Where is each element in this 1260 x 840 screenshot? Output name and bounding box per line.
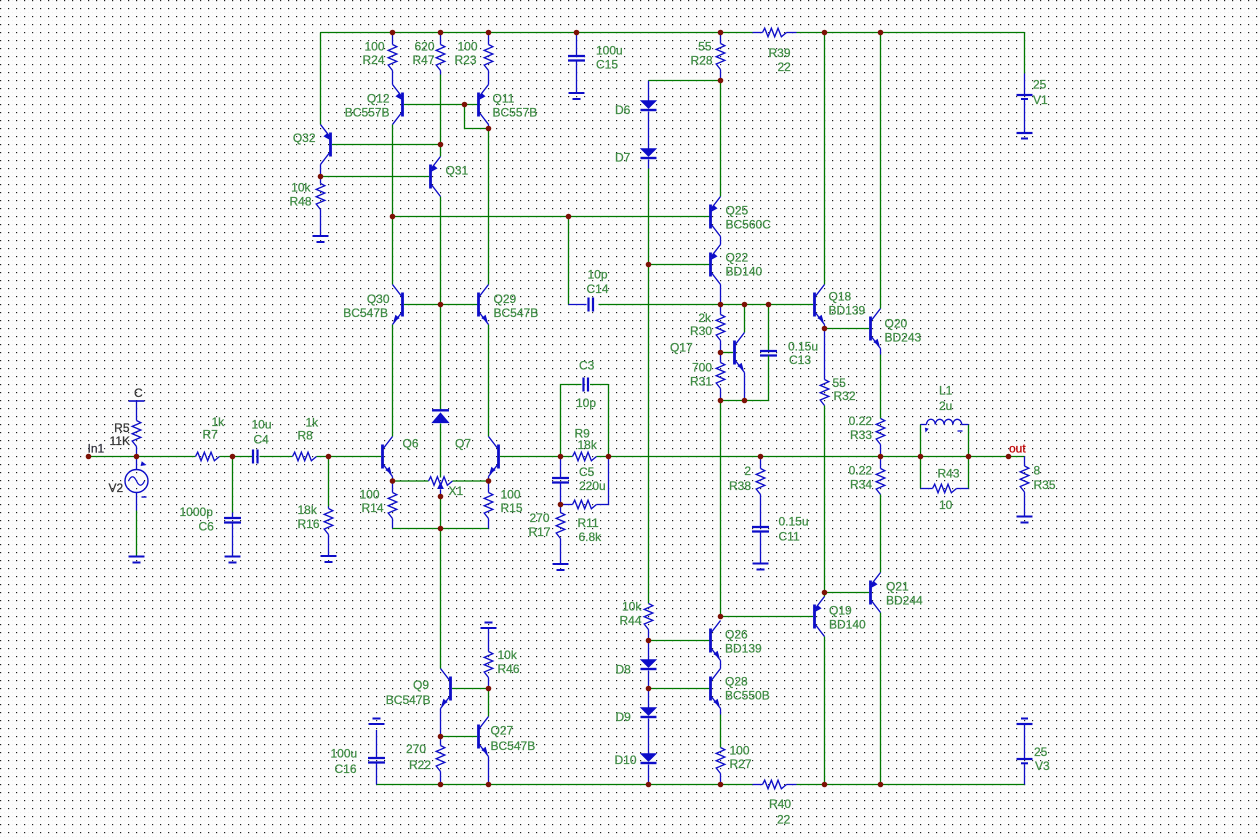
svg-text:10k: 10k	[291, 181, 311, 195]
svg-text:10u: 10u	[252, 418, 272, 432]
svg-text:D10: D10	[615, 753, 637, 767]
svg-text:BC557B: BC557B	[345, 106, 390, 120]
svg-text:2: 2	[744, 464, 751, 478]
svg-text:V1: V1	[1033, 93, 1048, 107]
svg-text:BC547B: BC547B	[491, 739, 536, 753]
svg-text:R17: R17	[528, 525, 550, 539]
svg-text:620: 620	[414, 40, 434, 54]
svg-text:V3: V3	[1035, 759, 1050, 773]
svg-text:BC550B: BC550B	[725, 689, 770, 703]
svg-text:BC560C: BC560C	[726, 218, 772, 232]
svg-text:Q20: Q20	[885, 317, 908, 331]
svg-text:R22: R22	[409, 758, 431, 772]
svg-text:D7: D7	[615, 151, 631, 165]
svg-text:C4: C4	[254, 433, 270, 447]
svg-text:18k: 18k	[298, 503, 318, 517]
svg-text:22: 22	[777, 813, 791, 827]
svg-text:Q32: Q32	[293, 131, 316, 145]
svg-text:R28: R28	[690, 54, 712, 68]
svg-text:Q12: Q12	[367, 92, 390, 106]
svg-text:2k: 2k	[698, 311, 712, 325]
svg-text:BC557B: BC557B	[493, 106, 538, 120]
svg-text:10: 10	[939, 498, 953, 512]
svg-text:100: 100	[457, 40, 477, 54]
svg-text:BD243: BD243	[885, 331, 922, 345]
svg-text:C5: C5	[579, 465, 595, 479]
svg-text:100: 100	[501, 488, 521, 502]
svg-text:Q6: Q6	[403, 437, 419, 451]
svg-text:R47: R47	[412, 53, 434, 67]
svg-text:BD140: BD140	[829, 618, 866, 632]
svg-text:Q22: Q22	[726, 251, 749, 265]
svg-text:R31: R31	[690, 375, 712, 389]
svg-text:10p: 10p	[576, 396, 596, 410]
svg-text:R46: R46	[498, 662, 520, 676]
svg-text:R23: R23	[454, 53, 476, 67]
svg-text:V2: V2	[109, 481, 124, 495]
svg-text:55: 55	[698, 40, 712, 54]
svg-text:R11: R11	[578, 516, 599, 530]
svg-text:100: 100	[730, 744, 750, 758]
svg-text:100: 100	[359, 488, 379, 502]
svg-text:C16: C16	[335, 762, 357, 776]
svg-text:25: 25	[1033, 78, 1047, 92]
svg-text:R32: R32	[834, 389, 856, 403]
svg-text:In1: In1	[88, 442, 105, 456]
svg-text:8: 8	[1034, 464, 1041, 478]
svg-text:Q28: Q28	[725, 675, 748, 689]
svg-text:Q19: Q19	[829, 604, 852, 618]
svg-text:R8: R8	[298, 429, 314, 443]
svg-text:Q31: Q31	[446, 164, 469, 178]
svg-text:R15: R15	[501, 501, 523, 515]
svg-text:C6: C6	[199, 520, 215, 534]
svg-text:Q18: Q18	[829, 290, 852, 304]
svg-text:Q9: Q9	[413, 678, 429, 692]
svg-text:100u: 100u	[331, 747, 358, 761]
svg-text:10k: 10k	[498, 648, 518, 662]
svg-text:10p: 10p	[588, 268, 608, 282]
svg-text:Q27: Q27	[491, 724, 514, 738]
svg-text:C: C	[134, 386, 143, 400]
svg-text:C13: C13	[789, 353, 811, 367]
svg-text:R30: R30	[690, 324, 712, 338]
svg-text:R35: R35	[1034, 478, 1056, 492]
svg-text:BC547B: BC547B	[494, 306, 539, 320]
svg-text:700: 700	[692, 361, 712, 375]
svg-text:C11: C11	[779, 530, 800, 544]
svg-text:100: 100	[364, 40, 384, 54]
svg-text:R38: R38	[729, 479, 751, 493]
svg-text:100u: 100u	[596, 44, 623, 58]
svg-text:BC547B: BC547B	[386, 693, 431, 707]
svg-text:270: 270	[406, 742, 426, 756]
svg-text:D6: D6	[615, 103, 631, 117]
svg-text:C15: C15	[596, 58, 618, 72]
svg-text:0.15u: 0.15u	[788, 340, 818, 354]
svg-text:R44: R44	[620, 614, 642, 628]
svg-text:R7: R7	[203, 428, 219, 442]
svg-text:R48: R48	[289, 195, 311, 209]
svg-text:Q30: Q30	[367, 292, 390, 306]
svg-text:R24: R24	[362, 53, 384, 67]
svg-text:0.22: 0.22	[849, 414, 873, 428]
svg-text:11K: 11K	[110, 434, 130, 448]
svg-text:270: 270	[529, 511, 549, 525]
svg-text:2u: 2u	[939, 399, 952, 413]
svg-text:D8: D8	[616, 663, 632, 677]
svg-text:Q11: Q11	[493, 92, 515, 106]
svg-text:R40: R40	[769, 797, 791, 811]
svg-text:Q21: Q21	[886, 580, 909, 594]
svg-text:BD139: BD139	[725, 642, 762, 656]
svg-text:X1: X1	[449, 484, 464, 498]
svg-text:R5: R5	[114, 421, 130, 435]
svg-text:BD140: BD140	[726, 265, 763, 279]
svg-text:C14: C14	[587, 282, 609, 296]
svg-text:R43: R43	[938, 467, 960, 481]
svg-text:out: out	[1009, 442, 1026, 456]
svg-text:18k: 18k	[578, 438, 598, 452]
svg-text:6.8k: 6.8k	[579, 530, 603, 544]
svg-text:220u: 220u	[579, 479, 606, 493]
svg-text:R16: R16	[298, 517, 320, 531]
svg-text:R27: R27	[730, 757, 752, 771]
svg-text:BD244: BD244	[886, 594, 923, 608]
svg-text:22: 22	[778, 60, 792, 74]
svg-text:BD139: BD139	[829, 304, 866, 318]
svg-text:Q26: Q26	[725, 628, 748, 642]
svg-text:R14: R14	[361, 501, 383, 515]
svg-text:Q25: Q25	[726, 204, 749, 218]
svg-text:BC547B: BC547B	[343, 306, 388, 320]
svg-text:55: 55	[833, 376, 847, 390]
svg-text:Q7: Q7	[455, 437, 471, 451]
svg-text:0.22: 0.22	[849, 464, 873, 478]
svg-text:1k: 1k	[306, 416, 320, 430]
svg-text:Q29: Q29	[494, 292, 517, 306]
svg-text:L1: L1	[939, 384, 953, 398]
svg-text:1000p: 1000p	[180, 505, 214, 519]
svg-text:10k: 10k	[622, 600, 642, 614]
svg-text:Q17: Q17	[670, 341, 693, 355]
svg-text:C3: C3	[579, 359, 595, 373]
svg-text:R34: R34	[850, 478, 872, 492]
svg-text:D9: D9	[616, 710, 632, 724]
svg-text:R39: R39	[769, 46, 791, 60]
svg-text:0.15u: 0.15u	[779, 515, 809, 529]
svg-text:R33: R33	[850, 428, 872, 442]
svg-text:25: 25	[1034, 745, 1048, 759]
